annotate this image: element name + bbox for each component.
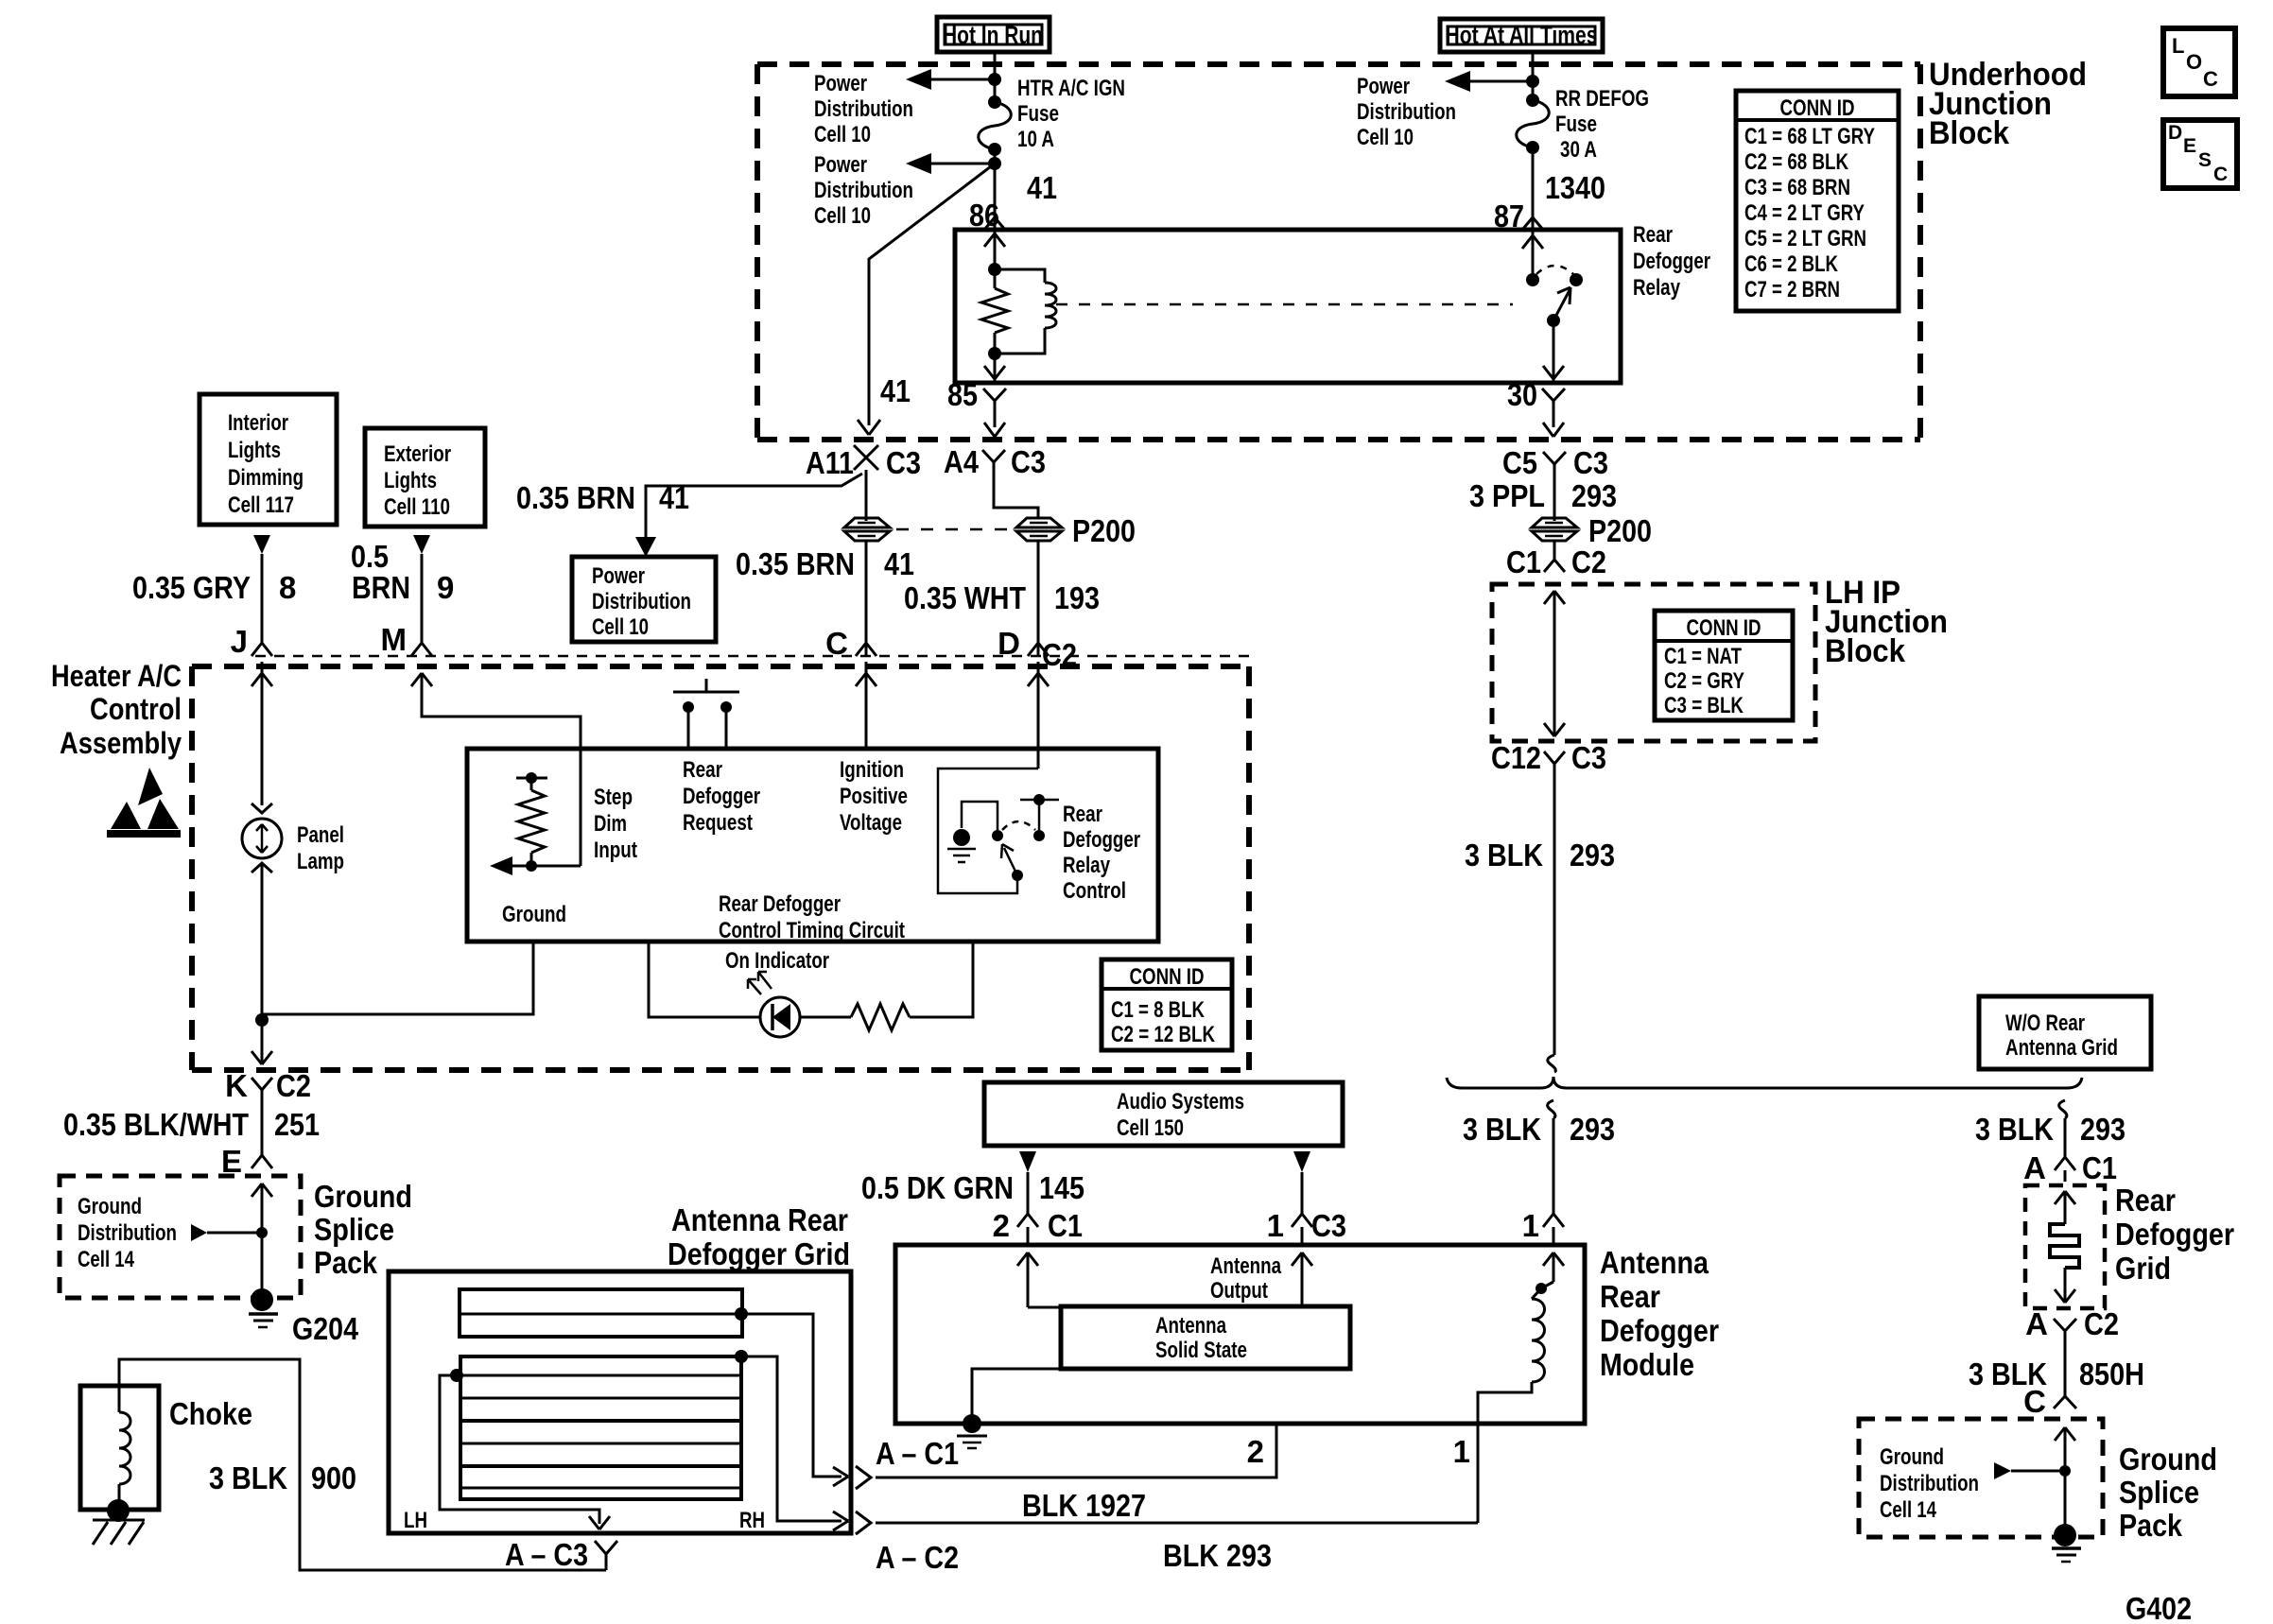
wire 3 BLK 850H <box>2064 1338 2067 1396</box>
svg-text:BRN: BRN <box>352 570 410 605</box>
svg-text:Distribution: Distribution <box>814 96 913 122</box>
wire P200 to C1/C2 <box>1553 541 1556 556</box>
node A4 connector <box>944 444 1046 482</box>
svg-text:C: C <box>2213 164 2228 185</box>
svg-text:Antenna Rear: Antenna Rear <box>671 1202 848 1237</box>
svg-text:C3: C3 <box>1573 445 1608 480</box>
node J connector <box>231 624 272 659</box>
svg-text:Grid: Grid <box>2115 1251 2171 1286</box>
Exterior Lights Cell 110 box <box>365 428 485 527</box>
svg-text:Lights: Lights <box>384 468 437 493</box>
svg-text:0.5 DK GRN: 0.5 DK GRN <box>861 1170 1014 1205</box>
wire 85 to A4 <box>984 416 1005 437</box>
svg-text:1340: 1340 <box>1545 170 1605 205</box>
svg-text:0.35 WHT: 0.35 WHT <box>904 580 1026 615</box>
node K connector <box>225 1068 311 1104</box>
svg-text:Rear Defogger: Rear Defogger <box>719 891 841 917</box>
wire 0.5 BRN 9 to M <box>421 554 424 643</box>
svg-text:W/O Rear: W/O Rear <box>2005 1011 2085 1036</box>
Audio Systems Cell 150 box <box>984 1082 1343 1146</box>
node A11 connector X <box>806 445 921 480</box>
arrow from audio systems (left) <box>1019 1151 1036 1214</box>
node junction dot on HTR fuse feed <box>988 73 1001 86</box>
Ground Splice Pack dashed box (left) <box>60 1176 301 1298</box>
svg-text:Exterior: Exterior <box>384 441 451 467</box>
ground bus wire to control box <box>262 942 533 1014</box>
svg-text:C1: C1 <box>1048 1208 1083 1243</box>
svg-text:C2: C2 <box>276 1068 311 1103</box>
svg-text:293: 293 <box>1570 838 1615 872</box>
svg-text:41: 41 <box>1027 170 1057 205</box>
svg-text:Relay: Relay <box>1063 853 1111 878</box>
splice junction dot <box>256 1227 268 1238</box>
svg-text:On Indicator: On Indicator <box>725 948 829 974</box>
On Indicator LED <box>748 972 800 1037</box>
Underhood Junction Block dashed boundary <box>757 64 1920 440</box>
svg-text:C6 = 2 BLK: C6 = 2 BLK <box>1744 251 1839 277</box>
svg-text:C12: C12 <box>1491 740 1541 775</box>
connector 87 symbol <box>1522 210 1543 230</box>
svg-text:Splice: Splice <box>2119 1475 2199 1510</box>
svg-text:293: 293 <box>1570 1112 1615 1147</box>
Antenna Solid State box <box>1061 1306 1350 1369</box>
antenna grid upper element <box>460 1289 742 1337</box>
heater connector face line <box>255 655 1249 658</box>
svg-text:CONN ID: CONN ID <box>1780 95 1855 121</box>
RR DEFOG fuse feed wire <box>1532 52 1535 100</box>
svg-text:C2 = 12 BLK: C2 = 12 BLK <box>1111 1022 1216 1047</box>
wire C into splice pack (arrow up) <box>2055 1427 2075 1528</box>
node 1/C3 connector (module) <box>1267 1208 1346 1245</box>
relay fixed contact dot 87 <box>1526 273 1539 286</box>
svg-text:251: 251 <box>274 1107 320 1142</box>
svg-text:Solid State: Solid State <box>1155 1338 1247 1363</box>
module internal ground wire <box>972 1369 1061 1422</box>
splice bus brace <box>1447 1077 2082 1088</box>
Antenna Rear Defogger Module box <box>895 1245 1585 1424</box>
svg-text:RR DEFOG: RR DEFOG <box>1555 86 1649 112</box>
fuse RR DEFOG 30A <box>1517 94 1550 154</box>
node C5 connector <box>1502 445 1608 484</box>
DESC box <box>2163 120 2237 188</box>
svg-text:Relay: Relay <box>1633 275 1681 301</box>
ground G204 symbol <box>249 1288 278 1327</box>
Power Distribution Cell 10 box <box>572 557 716 642</box>
svg-text:Voltage: Voltage <box>840 810 902 836</box>
svg-text:3 PPL: 3 PPL <box>1469 478 1545 513</box>
svg-text:9: 9 <box>437 570 454 605</box>
svg-text:Cell 150: Cell 150 <box>1117 1115 1184 1141</box>
svg-text:Rear: Rear <box>2115 1183 2176 1218</box>
svg-text:Antenna Grid: Antenna Grid <box>2005 1035 2118 1061</box>
Rear Defogger Relay box <box>955 230 1621 383</box>
relay control drive loop <box>938 769 1038 893</box>
wire arrow to Power Distribution Cell 10 (upper left) <box>906 69 995 90</box>
wire 3 BLK 293 (rear grid branch) <box>2059 1100 2067 1157</box>
svg-text:Cell 10: Cell 10 <box>1357 125 1414 150</box>
svg-text:1: 1 <box>1453 1434 1470 1469</box>
svg-text:41: 41 <box>884 546 914 581</box>
junction dot lower element (LH) <box>450 1369 463 1382</box>
svg-text:Hot In Run: Hot In Run <box>943 21 1043 49</box>
svg-text:P200: P200 <box>1588 513 1652 548</box>
module pin 2/C1 wire <box>1017 1253 1061 1307</box>
svg-text:10 A: 10 A <box>1017 127 1054 152</box>
svg-text:C3: C3 <box>886 445 921 480</box>
svg-text:Distribution: Distribution <box>1357 99 1456 125</box>
node D connector <box>998 626 1077 672</box>
svg-text:Input: Input <box>594 838 637 863</box>
svg-text:L: L <box>2172 34 2184 58</box>
relay moving contact dot <box>1570 273 1583 286</box>
relay switch pivot dot <box>1547 314 1560 327</box>
svg-text:Panel: Panel <box>297 822 344 848</box>
svg-text:P200: P200 <box>1072 513 1136 548</box>
svg-text:C2: C2 <box>1571 544 1606 579</box>
panel lamp break (top) <box>252 803 272 813</box>
wire lower element RH to right edge <box>741 1356 848 1530</box>
junction dot lower element (RH) <box>735 1350 748 1363</box>
arrow from Interior Lights box <box>253 535 270 554</box>
svg-text:Power: Power <box>814 71 867 96</box>
svg-text:Assembly: Assembly <box>60 726 182 760</box>
wire A11 to P200 <box>865 470 868 521</box>
wire panel lamp to K <box>261 863 264 1064</box>
svg-text:D: D <box>998 626 1020 661</box>
On Indicator resistor <box>800 942 973 1030</box>
svg-text:Defogger: Defogger <box>2115 1217 2234 1252</box>
junction dot upper element output <box>735 1307 748 1321</box>
wire E into splice pack (arrow up) <box>252 1183 272 1292</box>
rear defogger grid element <box>2050 1191 2079 1303</box>
node 1 connector (module right) <box>1522 1208 1564 1245</box>
wire D relay control <box>1028 662 1049 769</box>
wire 0.35 BLK/WHT 251 <box>261 1104 264 1155</box>
node 2/C1 connector (module) <box>993 1208 1083 1245</box>
svg-text:Request: Request <box>683 810 753 836</box>
svg-text:0.35 BRN: 0.35 BRN <box>736 546 855 581</box>
svg-text:Cell 14: Cell 14 <box>1880 1497 1936 1523</box>
svg-text:Choke: Choke <box>169 1396 252 1431</box>
svg-text:193: 193 <box>1054 580 1100 615</box>
svg-text:C1 = 8 BLK: C1 = 8 BLK <box>1111 997 1206 1023</box>
svg-text:Hot At All Times: Hot At All Times <box>1446 21 1598 49</box>
svg-text:Ignition: Ignition <box>840 757 904 783</box>
svg-text:Dimming: Dimming <box>228 465 304 491</box>
wire arrow to Power Distribution Cell 10 (right) <box>1445 71 1533 92</box>
svg-text:Power: Power <box>814 152 867 178</box>
svg-text:A4: A4 <box>944 444 980 479</box>
svg-text:Distribution: Distribution <box>78 1220 177 1246</box>
svg-text:900: 900 <box>311 1460 356 1495</box>
svg-text:C1 = 68 LT GRY: C1 = 68 LT GRY <box>1744 124 1875 149</box>
wire arrow to Power Distribution Cell 10 (lower left) <box>906 153 995 174</box>
svg-text:Cell 10: Cell 10 <box>814 122 871 147</box>
svg-text:J: J <box>231 624 248 659</box>
svg-text:A – C3: A – C3 <box>505 1537 588 1572</box>
LOC box <box>2163 28 2235 96</box>
svg-text:CONN ID: CONN ID <box>1687 615 1761 641</box>
svg-text:S: S <box>2198 149 2212 171</box>
module ground symbol <box>957 1414 987 1448</box>
relay contact travel dashed arc <box>1536 266 1573 274</box>
wire 30 to C5 <box>1543 416 1564 437</box>
svg-text:C5: C5 <box>1502 445 1537 480</box>
Hot In Run label box <box>937 17 1050 52</box>
relay coil pin 86 wire with up arrow <box>984 230 1005 269</box>
svg-text:C: C <box>2023 1384 2046 1419</box>
step dim output arrow <box>490 856 581 875</box>
P200 pass-through dashed link <box>896 528 1010 531</box>
svg-text:Fuse: Fuse <box>1555 112 1597 137</box>
svg-text:Distribution: Distribution <box>814 178 913 203</box>
Heater A/C Control Assembly dashed boundary <box>192 666 1249 1070</box>
choke coil <box>119 1386 130 1501</box>
svg-text:E: E <box>221 1144 242 1179</box>
wire circuit 1340 <box>1532 147 1535 230</box>
wire upper element to right edge <box>741 1314 848 1486</box>
svg-text:0.35 BLK/WHT: 0.35 BLK/WHT <box>63 1107 249 1142</box>
svg-text:Ground: Ground <box>1880 1444 1944 1470</box>
svg-text:0.35 BRN: 0.35 BRN <box>516 480 635 515</box>
connector 86 symbol <box>984 210 1005 230</box>
antenna grid lower element <box>460 1356 741 1499</box>
CONN ID table (heater A/C control) <box>1102 959 1232 1050</box>
relay resistor (parallel with coil) <box>981 269 1008 354</box>
Rear Defogger Control Timing Circuit box <box>467 749 1158 942</box>
svg-text:M: M <box>381 622 408 657</box>
CONN ID table (underhood junction block) <box>1736 91 1899 311</box>
svg-text:A: A <box>2023 1150 2046 1185</box>
arrowhead down at A11 wire <box>858 420 880 435</box>
svg-text:Dim: Dim <box>594 811 627 837</box>
svg-text:Defogger: Defogger <box>1063 827 1140 853</box>
svg-text:C2: C2 <box>2084 1306 2119 1341</box>
module pin 2 bottom wire to A-C1 <box>876 1424 1276 1477</box>
connector chevron A-C2 <box>856 1512 871 1534</box>
svg-text:A – C2: A – C2 <box>876 1540 959 1575</box>
node E connector <box>221 1144 272 1179</box>
svg-text:Ground: Ground <box>2119 1442 2217 1477</box>
choke chassis ground hatch <box>93 1520 145 1545</box>
svg-text:C1 = NAT: C1 = NAT <box>1664 644 1742 669</box>
svg-text:Antenna: Antenna <box>1600 1245 1709 1280</box>
arrow down at K <box>252 1051 272 1064</box>
svg-text:C: C <box>2203 67 2218 91</box>
svg-text:C2 = GRY: C2 = GRY <box>1664 668 1744 694</box>
svg-text:A – C1: A – C1 <box>876 1436 959 1471</box>
relay switch arm <box>1553 287 1570 320</box>
svg-text:Interior: Interior <box>228 410 288 436</box>
choke ground dot <box>107 1499 130 1522</box>
node A/C2 connector (rear grid bottom) <box>2025 1306 2119 1346</box>
svg-text:C3: C3 <box>1011 444 1046 479</box>
svg-text:Power: Power <box>592 563 645 589</box>
svg-text:HTR A/C IGN: HTR A/C IGN <box>1017 76 1125 101</box>
svg-text:30 A: 30 A <box>1560 137 1597 163</box>
svg-text:Rear: Rear <box>1600 1279 1660 1314</box>
svg-text:Lamp: Lamp <box>297 849 344 874</box>
svg-text:0.35 GRY: 0.35 GRY <box>132 570 251 605</box>
panel lamp <box>242 819 282 858</box>
panel lamp break (bottom) <box>252 863 272 872</box>
svg-text:C7 = 2 BRN: C7 = 2 BRN <box>1744 277 1840 302</box>
svg-text:Ground: Ground <box>502 902 566 927</box>
svg-text:0.5: 0.5 <box>351 539 389 574</box>
svg-text:Rear: Rear <box>1633 222 1673 248</box>
connector 85 symbol <box>983 389 1006 416</box>
svg-text:2: 2 <box>993 1208 1010 1243</box>
connector chevron A-C1 <box>856 1466 871 1489</box>
wire 3 BLK 293 (module branch) <box>1548 1100 1555 1214</box>
inline connector P200 right grommet <box>1016 518 1062 541</box>
svg-text:C4 = 2 LT GRY: C4 = 2 LT GRY <box>1744 200 1865 226</box>
Interior Lights Dimming Cell 117 box <box>200 394 337 525</box>
svg-text:8: 8 <box>279 570 296 605</box>
svg-text:C2 = 68 BLK: C2 = 68 BLK <box>1744 149 1849 175</box>
svg-text:Block: Block <box>1825 633 1905 669</box>
svg-text:Cell 117: Cell 117 <box>228 492 294 518</box>
svg-text:Antenna: Antenna <box>1155 1313 1227 1339</box>
svg-text:G402: G402 <box>2126 1591 2192 1624</box>
svg-text:41: 41 <box>659 480 689 515</box>
ground distribution tap arrow <box>191 1224 262 1241</box>
ground symbol (relay control) <box>947 829 976 862</box>
relay coil junction bottom dot <box>988 347 1001 360</box>
svg-text:3 BLK: 3 BLK <box>209 1460 287 1495</box>
svg-text:30: 30 <box>1507 377 1537 412</box>
svg-text:Defogger: Defogger <box>1633 249 1710 274</box>
svg-text:85: 85 <box>947 377 978 412</box>
svg-text:1: 1 <box>1522 1208 1539 1243</box>
svg-text:C3: C3 <box>1571 740 1606 775</box>
relay pin 30 wire with down arrow <box>1543 320 1564 383</box>
node C connector (ground splice) <box>2023 1384 2076 1419</box>
relay control fixed contact dot <box>992 830 1003 841</box>
svg-text:LH: LH <box>404 1508 427 1533</box>
node A-C3 connector <box>505 1537 617 1572</box>
wire 3 BLK 293 (LH IP to splice bus) <box>1548 779 1556 1072</box>
wire from Hot In Run into junction block <box>994 52 997 102</box>
W/O Rear Antenna Grid box <box>1979 996 2151 1069</box>
svg-text:Module: Module <box>1600 1347 1694 1382</box>
wire 0.35 BRN 41 (A11 to heater C) <box>865 541 868 656</box>
wire J into heater (arrow up) <box>252 662 272 805</box>
splice junction dot (right) <box>2059 1465 2071 1477</box>
node A/C1 connector (rear grid) <box>2023 1150 2117 1185</box>
svg-text:Step: Step <box>594 785 633 810</box>
svg-text:293: 293 <box>2080 1112 2126 1147</box>
wire A4 elbow to P200 <box>994 482 1038 518</box>
svg-text:Defogger: Defogger <box>1600 1313 1719 1348</box>
svg-text:Lights: Lights <box>228 438 281 463</box>
On Indicator loop wire <box>649 942 759 1017</box>
svg-text:Output: Output <box>1210 1278 1268 1304</box>
svg-text:Defogger Grid: Defogger Grid <box>668 1236 850 1271</box>
ESD warning symbol <box>107 768 181 838</box>
svg-text:BLK 293: BLK 293 <box>1163 1538 1272 1573</box>
Ground Splice Pack dashed box (right) <box>1859 1419 2103 1537</box>
svg-text:Cell 10: Cell 10 <box>592 614 649 640</box>
svg-text:Ground: Ground <box>314 1179 412 1214</box>
wire 0.35 WHT 193 (A4 to heater D) <box>1037 541 1040 656</box>
wire 0.35 GRY 8 to J <box>261 554 264 643</box>
svg-text:A11: A11 <box>806 445 854 480</box>
wire C ignition positive voltage <box>856 662 876 749</box>
module pin 1 (right) wire and coil <box>1478 1253 1564 1523</box>
svg-text:C1: C1 <box>1506 544 1541 579</box>
Choke box <box>80 1386 159 1510</box>
svg-text:C3 = BLK: C3 = BLK <box>1664 693 1744 718</box>
svg-text:C5 = 2 LT GRN: C5 = 2 LT GRN <box>1744 226 1866 251</box>
ground distribution tap arrow (right) <box>1994 1462 2065 1479</box>
svg-text:A: A <box>2025 1306 2048 1341</box>
node C connector <box>825 626 876 661</box>
svg-text:Cell 110: Cell 110 <box>384 494 450 520</box>
svg-text:Pack: Pack <box>2119 1508 2183 1543</box>
CONN ID table (LH IP junction block) <box>1655 611 1793 720</box>
svg-text:1: 1 <box>1267 1208 1284 1243</box>
svg-text:G204: G204 <box>292 1311 359 1346</box>
svg-text:293: 293 <box>1571 478 1617 513</box>
LH IP Junction Block dashed box <box>1492 584 1815 741</box>
wire branch 0.35 BRN 41 to power distribution <box>646 474 862 539</box>
wire 3 BLK 900 (A-C3 to choke) <box>119 1359 606 1570</box>
svg-text:Pack: Pack <box>314 1245 378 1280</box>
node junction dot at RR DEFOG <box>1526 75 1539 88</box>
svg-text:Control Timing Circuit: Control Timing Circuit <box>719 918 905 943</box>
step dim input resistor <box>516 772 547 872</box>
svg-text:Control: Control <box>1063 878 1126 904</box>
svg-text:Distribution: Distribution <box>592 589 691 614</box>
svg-text:3 BLK: 3 BLK <box>1463 1112 1541 1147</box>
Antenna Rear Defogger Grid box <box>389 1271 851 1533</box>
relay control switch arm <box>1001 844 1017 875</box>
svg-text:C3: C3 <box>1311 1208 1346 1243</box>
svg-text:41: 41 <box>880 373 911 408</box>
svg-text:Power: Power <box>1357 74 1410 99</box>
relay coil junction top dot <box>988 263 1001 276</box>
wire through LH IP junction block <box>1544 591 1565 736</box>
wire below fuse <box>994 149 997 230</box>
wire LH to A-C3 <box>440 1375 610 1529</box>
ground G402 symbol <box>2052 1524 2081 1562</box>
Rear Defogger Grid dashed box <box>2025 1185 2105 1308</box>
node C12/C3 connector <box>1491 740 1606 779</box>
module pin 1/C3 wire <box>1292 1253 1312 1306</box>
rear defogger request switch <box>673 679 739 749</box>
relay control travel dashed arc <box>1002 821 1035 830</box>
inline connector P200 (right branch) <box>1532 518 1577 541</box>
svg-text:D: D <box>2168 122 2182 144</box>
wire 3 PPL 293 (C5 to P200) <box>1553 484 1556 521</box>
node M connector <box>381 622 433 657</box>
svg-text:Audio Systems: Audio Systems <box>1117 1089 1244 1114</box>
junction dot panel lamp / ground bus <box>255 1013 269 1027</box>
relay pin 85 wire with down arrow <box>984 354 1005 383</box>
arrow into Power Distribution box <box>635 537 656 557</box>
relay pin 87 wire with up arrow <box>1522 230 1543 280</box>
arrow from Exterior Lights box <box>413 535 430 554</box>
svg-text:3 BLK: 3 BLK <box>1465 838 1543 872</box>
relay control switch pivot dot <box>1012 870 1023 881</box>
svg-text:BLK 1927: BLK 1927 <box>1022 1488 1146 1523</box>
svg-text:850H: 850H <box>2079 1356 2144 1391</box>
relay coil winding <box>995 269 1056 354</box>
svg-text:CONN ID: CONN ID <box>1130 964 1205 990</box>
svg-text:Control: Control <box>90 692 182 726</box>
node junction dot circuit 41 <box>988 157 1001 170</box>
